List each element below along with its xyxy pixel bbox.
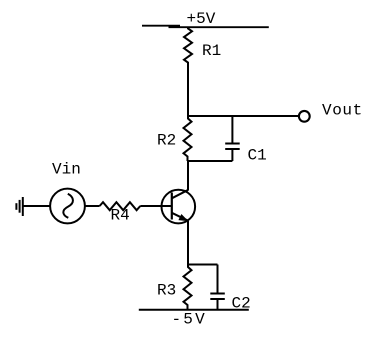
capacitor C1 top lead wire <box>231 116 233 143</box>
Vout terminal circle <box>299 111 310 122</box>
AC source V1 sine squiggle <box>63 194 73 218</box>
wire node C to C2 <box>188 264 218 266</box>
svg-text:-5V: -5V <box>172 311 207 329</box>
-5V power rail <box>139 309 249 311</box>
svg-text:R1: R1 <box>202 42 221 60</box>
svg-text:+5V: +5V <box>187 10 216 28</box>
svg-text:R4: R4 <box>111 206 130 224</box>
capacitor C2 bottom lead wire <box>217 300 219 311</box>
wire R4 to transistor base <box>140 205 172 207</box>
capacitor C1 <box>225 144 240 150</box>
resistor R1 <box>184 27 192 65</box>
wire node B down to transistor collector <box>187 161 189 190</box>
wire source V1 to R4 <box>84 205 99 207</box>
wire ground to source V1 <box>23 205 50 207</box>
resistor R3 <box>184 265 192 310</box>
transistor Q1 <box>162 190 196 224</box>
+5V power rail <box>142 26 269 28</box>
svg-text:R3: R3 <box>157 282 176 300</box>
svg-text:Vin: Vin <box>52 161 81 179</box>
resistor R2 <box>184 116 192 161</box>
ground <box>16 197 22 216</box>
AC source V1 circle <box>50 189 85 224</box>
svg-text:Vout: Vout <box>322 102 363 120</box>
wire transistor emitter down to node C <box>187 221 189 265</box>
capacitor C2 <box>210 294 225 300</box>
capacitor C1 bottom lead wire <box>231 150 233 161</box>
svg-text:C1: C1 <box>248 147 267 165</box>
capacitor C2 top lead wire <box>217 265 219 293</box>
node A horizontal wire to Vout <box>187 115 298 117</box>
wire R1 bottom to node A <box>187 64 189 116</box>
resistor R4 <box>100 202 141 210</box>
wire C1 bottom to R2 bottom <box>187 160 232 162</box>
svg-text:R2: R2 <box>157 131 176 149</box>
